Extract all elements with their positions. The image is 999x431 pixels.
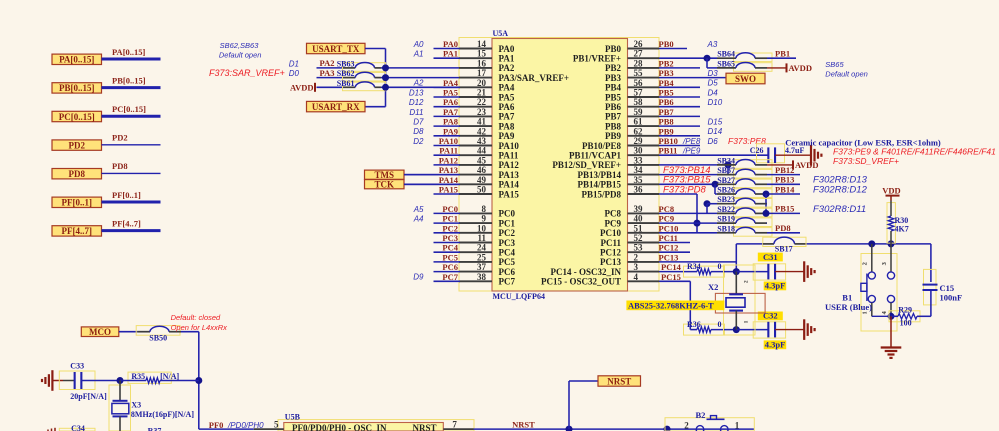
wire SB23 feed — [704, 200, 718, 213]
wire TCK — [404, 183, 459, 185]
svg-text:PC15: PC15 — [661, 272, 681, 282]
wire MCO down to OSC_IN — [181, 332, 254, 429]
port PD8 — [52, 169, 102, 180]
svg-text:R35: R35 — [131, 372, 145, 381]
net label PB5 — [659, 88, 674, 98]
net label PB3 — [659, 68, 674, 78]
port USART_TX — [307, 43, 366, 54]
svg-text:PD2: PD2 — [112, 133, 128, 143]
port PB[0..15] — [52, 83, 102, 94]
wire pin33 to SB34 — [659, 161, 732, 174]
pin 45 PA12 — [459, 155, 519, 170]
pin 46 PA13 — [459, 165, 519, 180]
svg-text:PB8: PB8 — [659, 117, 674, 127]
svg-text:F302R8:D12: F302R8:D12 — [813, 184, 868, 195]
svg-text:59: 59 — [634, 107, 644, 117]
wire PC4 — [434, 251, 461, 253]
svg-text:PC3: PC3 — [442, 233, 458, 243]
pin 26 PB0 — [605, 39, 659, 54]
pin 28 PB2 — [605, 58, 659, 73]
node A5 — [413, 205, 424, 214]
net label PA6 — [443, 97, 458, 107]
svg-text:PC1: PC1 — [499, 218, 516, 228]
pin 57 PB5 — [605, 88, 659, 103]
net label PA12 — [439, 155, 458, 165]
node B2 junction — [664, 426, 671, 431]
solder bridge SB61 — [337, 79, 386, 91]
node D10 — [708, 98, 723, 107]
wire net PB13 — [767, 183, 800, 185]
pin 33 PB12/SD_VREF+ — [552, 155, 659, 170]
net label PF0 /PD0/PH0 — [209, 420, 264, 430]
net label PB6 — [659, 97, 674, 107]
svg-text:PA15: PA15 — [439, 185, 458, 195]
svg-text:PA2: PA2 — [320, 58, 335, 68]
resistor R29 100 — [889, 305, 931, 327]
net label PB9 — [659, 126, 674, 136]
node D14 — [708, 127, 723, 136]
svg-text:PC13: PC13 — [600, 257, 621, 267]
svg-text:PA[0..15]: PA[0..15] — [59, 55, 94, 65]
wire PB8 — [659, 125, 700, 127]
net label PA1 — [443, 49, 458, 59]
svg-text:PC8: PC8 — [605, 209, 622, 219]
svg-text:PC15 - OSC32_OUT: PC15 - OSC32_OUT — [541, 277, 621, 287]
svg-text:PA6: PA6 — [499, 102, 515, 112]
wire PA1 — [434, 57, 461, 59]
svg-text:PB12/SD_VREF+: PB12/SD_VREF+ — [552, 160, 621, 170]
svg-text:TCK: TCK — [374, 180, 394, 190]
wire bus PF[4..7] — [102, 229, 161, 232]
node D9 — [413, 273, 424, 282]
svg-text:D5: D5 — [708, 79, 719, 88]
capacitor C31 4.3pF — [736, 252, 804, 291]
node R35 junction — [195, 377, 202, 384]
svg-text:PB0: PB0 — [605, 44, 622, 54]
node D13 — [409, 88, 424, 97]
wire NRST — [474, 428, 755, 430]
net label PC6 — [442, 262, 458, 272]
node D1 — [289, 59, 299, 68]
capacitor C34 (partial) — [48, 424, 95, 431]
svg-text:PA14: PA14 — [499, 180, 520, 190]
svg-text:17: 17 — [477, 68, 487, 78]
port SWO — [726, 73, 765, 84]
svg-text:PA1: PA1 — [443, 49, 458, 59]
solder bridge SB18 — [717, 224, 772, 236]
svg-text:X3: X3 — [131, 400, 141, 409]
wire PC8 to SB22 — [659, 212, 717, 214]
pin 21 PA5 — [459, 88, 515, 103]
svg-text:MCO: MCO — [89, 327, 111, 337]
svg-text:PF[4..7]: PF[4..7] — [112, 218, 141, 228]
node D11 — [409, 108, 423, 117]
port PF[4..7] — [52, 226, 102, 237]
node D0 — [289, 69, 300, 78]
svg-text:F373:SAR_VREF+: F373:SAR_VREF+ — [209, 68, 285, 78]
solder bridge SB37 — [717, 166, 772, 178]
svg-text:38: 38 — [477, 272, 487, 282]
svg-text:PC8: PC8 — [659, 204, 675, 214]
svg-text:PB14: PB14 — [775, 184, 795, 194]
svg-text:51: 51 — [634, 223, 644, 233]
node NRST junction — [566, 426, 573, 431]
solder bridge SB19 — [697, 215, 772, 227]
node A1 — [413, 50, 424, 59]
resistor R34 0 — [684, 262, 737, 277]
svg-text:PB[0..15]: PB[0..15] — [112, 75, 146, 85]
net label PC8 — [659, 204, 675, 214]
svg-text:42: 42 — [477, 126, 487, 136]
pin 42 PA9 — [459, 126, 515, 141]
wire PB6 — [659, 106, 700, 108]
svg-text:100nF: 100nF — [940, 292, 963, 302]
wire PB11/PE9 — [659, 154, 768, 156]
wire PA14 — [404, 183, 460, 185]
node D4 — [708, 88, 719, 97]
svg-text:C15: C15 — [940, 283, 955, 293]
svg-text:AVDD: AVDD — [290, 82, 313, 92]
svg-text:PA11: PA11 — [499, 151, 519, 161]
svg-text:PB12: PB12 — [775, 165, 794, 175]
svg-text:PC10: PC10 — [659, 223, 679, 233]
svg-text:PB2: PB2 — [659, 58, 674, 68]
node X3 junction — [117, 377, 124, 384]
wire AVDD-SB61 — [317, 86, 460, 88]
net label PF[0..1] — [112, 190, 141, 200]
node OSC32_OUT junction — [733, 326, 740, 333]
pin 29 PB10/PE8 — [582, 136, 659, 151]
svg-text:56: 56 — [634, 78, 644, 88]
pin 15 PA1 — [459, 49, 515, 64]
node junction SB61 — [382, 84, 389, 91]
svg-text:PA6: PA6 — [443, 97, 458, 107]
svg-text:D15: D15 — [708, 118, 723, 127]
net label PC11 — [659, 233, 678, 243]
net label PC1 — [442, 214, 458, 224]
net label PA9 — [443, 126, 458, 136]
wire PA15 — [434, 193, 461, 195]
svg-text:B1: B1 — [842, 292, 852, 302]
svg-text:30: 30 — [634, 146, 644, 156]
svg-text:55: 55 — [634, 68, 644, 78]
svg-text:PD8: PD8 — [775, 223, 791, 233]
node D12 — [409, 98, 424, 107]
button B1 USER (Blue) — [825, 244, 897, 331]
svg-text:1: 1 — [744, 320, 750, 323]
svg-text:D9: D9 — [413, 273, 424, 282]
svg-text:D8: D8 — [413, 127, 424, 136]
pin 27 PB1/VREF+ — [573, 49, 659, 64]
svg-text:X2: X2 — [708, 282, 718, 292]
svg-text:Default open: Default open — [825, 69, 868, 78]
net label PC5 — [442, 252, 458, 262]
svg-text:34: 34 — [634, 165, 644, 175]
svg-text:PB1: PB1 — [775, 49, 790, 59]
svg-text:A4: A4 — [413, 215, 424, 224]
svg-text:PA3: PA3 — [320, 68, 335, 78]
wire PA10 — [434, 145, 461, 147]
svg-text:Open for L4xxRx: Open for L4xxRx — [171, 323, 228, 332]
wire PC15 down — [659, 281, 697, 329]
net label PB15 — [775, 204, 794, 214]
svg-text:PB3: PB3 — [659, 68, 674, 78]
svg-text:PA10: PA10 — [439, 136, 458, 146]
svg-text:A2: A2 — [413, 79, 424, 88]
net label PC14 — [661, 262, 682, 272]
ground (C33) — [42, 370, 75, 391]
pin 37 PC6 — [459, 262, 515, 277]
wire PB7 — [659, 115, 700, 117]
pin 3 PC14 - OSC32_IN — [550, 262, 659, 277]
svg-text:PB6: PB6 — [605, 102, 622, 112]
wire pin36 down to SB18 row — [659, 194, 701, 233]
svg-text:3: 3 — [634, 262, 639, 272]
svg-text:PA9: PA9 — [443, 126, 458, 136]
svg-text:PB10/PE8: PB10/PE8 — [582, 141, 622, 151]
svg-text:U5B: U5B — [285, 412, 301, 421]
svg-text:4K7: 4K7 — [895, 225, 909, 234]
wire net PB12 — [767, 174, 800, 176]
net label PB11/PE9 — [659, 146, 701, 156]
svg-text:PA13: PA13 — [499, 170, 520, 180]
svg-text:PC9: PC9 — [659, 214, 675, 224]
svg-text:PB1/VREF+: PB1/VREF+ — [573, 54, 621, 64]
wire PB4 — [659, 86, 700, 88]
MCU part U5B — [284, 412, 444, 431]
svg-text:PA5: PA5 — [443, 88, 458, 98]
svg-text:USER (Blue): USER (Blue) — [825, 302, 872, 312]
svg-text:A3: A3 — [707, 40, 718, 49]
net label PA7 — [443, 107, 459, 117]
svg-text:D2: D2 — [413, 137, 424, 146]
pin 22 PA6 — [459, 97, 515, 112]
svg-text:58: 58 — [634, 97, 644, 107]
solder bridge SB63 — [337, 59, 386, 71]
solder bridge SB17 — [763, 237, 806, 254]
svg-text:36: 36 — [634, 185, 644, 195]
ground (B1) — [881, 316, 902, 358]
svg-text:33: 33 — [634, 155, 644, 165]
svg-text:PB11/VCAP1: PB11/VCAP1 — [569, 151, 622, 161]
label F302R8:D12 — [813, 184, 868, 195]
svg-text:27: 27 — [634, 49, 644, 59]
pin 53 PC12 — [600, 243, 659, 258]
port TMS — [365, 170, 405, 180]
pin 52 PC11 — [600, 233, 659, 248]
svg-text:37: 37 — [477, 262, 487, 272]
net label PA15 — [439, 185, 458, 195]
U5B selection box — [278, 420, 474, 431]
svg-text:24: 24 — [477, 243, 487, 253]
node junction SB63 — [382, 64, 389, 71]
port PC[0..15] — [52, 111, 102, 122]
capacitor C33 20pF[N/A] — [59, 362, 107, 402]
net label PA2 — [320, 58, 335, 68]
svg-text:53: 53 — [634, 243, 644, 253]
net label PB4 — [659, 78, 675, 88]
port NRST — [598, 376, 641, 387]
svg-text:5: 5 — [274, 420, 279, 430]
svg-text:PC14 - OSC32_IN: PC14 - OSC32_IN — [550, 267, 621, 277]
svg-text:B2: B2 — [696, 410, 706, 420]
ground (C26) — [811, 145, 821, 166]
svg-text:PA15: PA15 — [499, 189, 520, 199]
svg-text:PF[4..7]: PF[4..7] — [62, 226, 93, 236]
node D3 — [708, 69, 719, 78]
wire PC14 — [659, 271, 697, 273]
svg-text:PA8: PA8 — [499, 121, 515, 131]
svg-text:PA9: PA9 — [499, 131, 515, 141]
node D8 — [413, 127, 424, 136]
svg-text:PB2: PB2 — [605, 63, 622, 73]
pin 30 PB11/VCAP1 — [569, 146, 659, 161]
svg-text:PA0: PA0 — [499, 44, 515, 54]
svg-text:PC11: PC11 — [600, 238, 621, 248]
pin 55 PB3 — [605, 68, 659, 83]
node A0 — [413, 40, 424, 49]
pin 40 PC9 — [605, 214, 660, 229]
wire PA7 — [434, 115, 461, 117]
resistor R36 0 — [684, 320, 737, 335]
svg-text:43: 43 — [477, 136, 487, 146]
pin 41 PA8 — [459, 117, 515, 132]
svg-text:PC0: PC0 — [442, 204, 458, 214]
svg-text:28: 28 — [634, 58, 644, 68]
svg-text:NRST: NRST — [607, 376, 631, 386]
wire PC13 to B1 rail — [659, 244, 736, 272]
svg-text:AVDD: AVDD — [795, 160, 818, 170]
wire PC12 — [659, 251, 690, 253]
wire PA4 — [434, 86, 461, 88]
svg-text:/PE8: /PE8 — [682, 137, 701, 146]
svg-text:16: 16 — [477, 58, 487, 68]
svg-text:4.3pF: 4.3pF — [765, 281, 786, 291]
svg-text:PC7: PC7 — [442, 272, 458, 282]
node A2 — [413, 79, 424, 88]
svg-text:PA7: PA7 — [499, 112, 515, 122]
wire PA13 — [404, 174, 460, 176]
svg-text:45: 45 — [477, 155, 487, 165]
svg-text:7: 7 — [452, 420, 457, 430]
wire PB1 — [767, 57, 796, 59]
solder bridge SB26 — [715, 186, 772, 198]
svg-text:40: 40 — [634, 214, 644, 224]
svg-text:PB4: PB4 — [605, 83, 622, 93]
svg-text:D12: D12 — [409, 98, 424, 107]
svg-text:D14: D14 — [708, 127, 723, 136]
label F373:PB15 — [663, 175, 711, 186]
svg-text:D11: D11 — [409, 108, 423, 117]
svg-text:/PD0/PH0: /PD0/PH0 — [227, 421, 264, 430]
svg-text:ABS25-32.768KHZ-6-T: ABS25-32.768KHZ-6-T — [628, 300, 714, 310]
net label PB2 — [659, 58, 674, 68]
solder bridge SB65 — [717, 59, 772, 71]
svg-text:PD2: PD2 — [69, 140, 86, 150]
svg-text:15: 15 — [477, 49, 487, 59]
svg-text:R37: R37 — [148, 427, 162, 431]
net label PA11 — [439, 146, 458, 156]
svg-text:PB3: PB3 — [605, 73, 622, 83]
power AVDD (SB34) — [767, 160, 818, 170]
svg-text:C34: C34 — [71, 424, 85, 431]
svg-text:SWO: SWO — [735, 74, 756, 84]
svg-text:26: 26 — [634, 39, 644, 49]
label F302R8:D13 — [813, 175, 868, 186]
capacitor C32 4.3pF — [736, 311, 804, 350]
svg-text:MCU_LQFP64: MCU_LQFP64 — [493, 292, 545, 301]
svg-text:PB9: PB9 — [659, 126, 674, 136]
wire net PD8 — [767, 232, 800, 234]
svg-text:USART_RX: USART_RX — [312, 102, 360, 112]
wire PA5 — [434, 96, 461, 98]
svg-text:20: 20 — [477, 78, 487, 88]
svg-text:PB13: PB13 — [775, 175, 794, 185]
svg-text:PF0: PF0 — [209, 420, 224, 430]
svg-text:57: 57 — [634, 88, 644, 98]
svg-text:F373:SD_VREF+: F373:SD_VREF+ — [833, 156, 899, 166]
label F373:SD_VREF+ — [833, 156, 899, 166]
svg-text:D1: D1 — [289, 59, 299, 68]
ground (C32) — [804, 319, 814, 340]
net label PA14 — [439, 175, 459, 185]
solder bridge SB50 — [136, 326, 181, 343]
note SB62,SB63 default open — [219, 41, 262, 59]
svg-text:SB50: SB50 — [149, 333, 167, 342]
pin 62 PB9 — [605, 126, 659, 141]
wire PB1 to SB64 — [659, 55, 717, 68]
svg-text:PB[0..15]: PB[0..15] — [59, 83, 95, 93]
wire PA9 — [434, 135, 461, 137]
svg-text:49: 49 — [477, 175, 487, 185]
svg-text:PB15: PB15 — [775, 204, 794, 214]
crystal X3 8MHz — [109, 381, 194, 431]
svg-text:52: 52 — [634, 233, 644, 243]
svg-text:39: 39 — [634, 204, 644, 214]
wire PA2-SB63 — [317, 67, 460, 69]
svg-text:PA0: PA0 — [443, 39, 458, 49]
wire bus PC[0..15] — [102, 115, 161, 118]
svg-text:62: 62 — [634, 126, 644, 136]
wire PA3-SB62 — [317, 77, 460, 79]
pin 59 PB7 — [605, 107, 659, 122]
wire PC5 — [434, 261, 461, 263]
svg-text:R30: R30 — [895, 216, 909, 225]
node D15 — [708, 118, 723, 127]
svg-text:F373:PE9 & F401RE/F411RE/F446R: F373:PE9 & F401RE/F411RE/F446RE/F41 — [833, 146, 996, 156]
svg-text:D10: D10 — [708, 98, 723, 107]
svg-text:PA4: PA4 — [499, 83, 515, 93]
note ceramic capacitor — [785, 137, 941, 147]
svg-text:D4: D4 — [708, 88, 719, 97]
svg-text:PB13/PB14: PB13/PB14 — [577, 170, 621, 180]
node D6 — [708, 137, 719, 146]
svg-text:PB11: PB11 — [659, 146, 678, 156]
capacitor C26 4.7uF — [750, 144, 811, 163]
net label PC15 — [661, 272, 681, 282]
wire PA6 — [434, 106, 461, 108]
resistor R30 4K7 — [887, 201, 909, 244]
solder bridge SB34 — [717, 156, 772, 168]
svg-text:D7: D7 — [413, 118, 424, 127]
MCU selection box — [459, 38, 659, 292]
net label PA13 — [439, 165, 458, 175]
svg-text:PA[0..15]: PA[0..15] — [112, 47, 146, 57]
wire PC7 — [434, 280, 461, 282]
svg-text:D0: D0 — [289, 69, 300, 78]
svg-text:100: 100 — [900, 318, 912, 327]
svg-text:2: 2 — [744, 280, 750, 283]
